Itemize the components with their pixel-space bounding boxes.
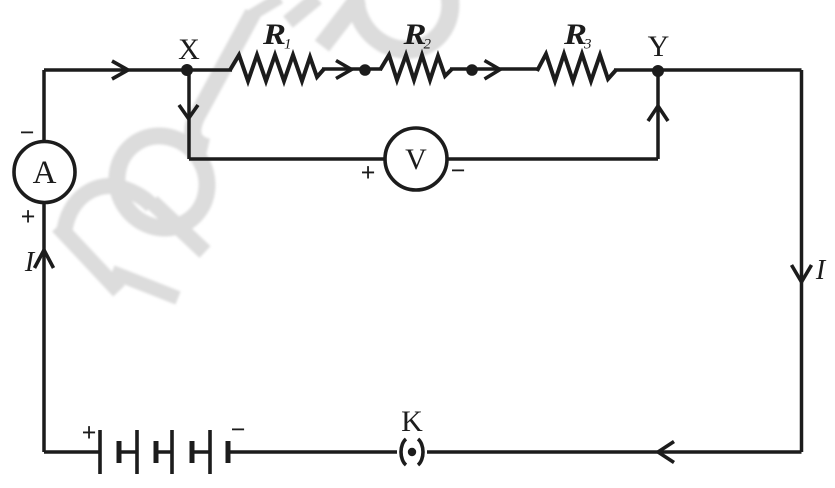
- svg-text:K: K: [401, 405, 423, 438]
- svg-text:Y: Y: [648, 30, 670, 63]
- svg-text:R: R: [262, 17, 286, 50]
- svg-text:1: 1: [284, 37, 292, 53]
- svg-text:−: −: [231, 415, 246, 444]
- svg-text:I: I: [815, 255, 827, 286]
- svg-text:3: 3: [583, 37, 592, 53]
- svg-text:−: −: [451, 156, 466, 185]
- svg-text:X: X: [178, 33, 200, 66]
- svg-text:+: +: [82, 418, 97, 447]
- svg-text:A: A: [33, 155, 57, 191]
- svg-text:−: −: [20, 118, 35, 147]
- svg-text:+: +: [361, 158, 376, 187]
- svg-text:V: V: [405, 143, 427, 176]
- svg-text:2: 2: [424, 37, 432, 53]
- svg-text:+: +: [21, 202, 36, 231]
- svg-text:I: I: [24, 247, 36, 278]
